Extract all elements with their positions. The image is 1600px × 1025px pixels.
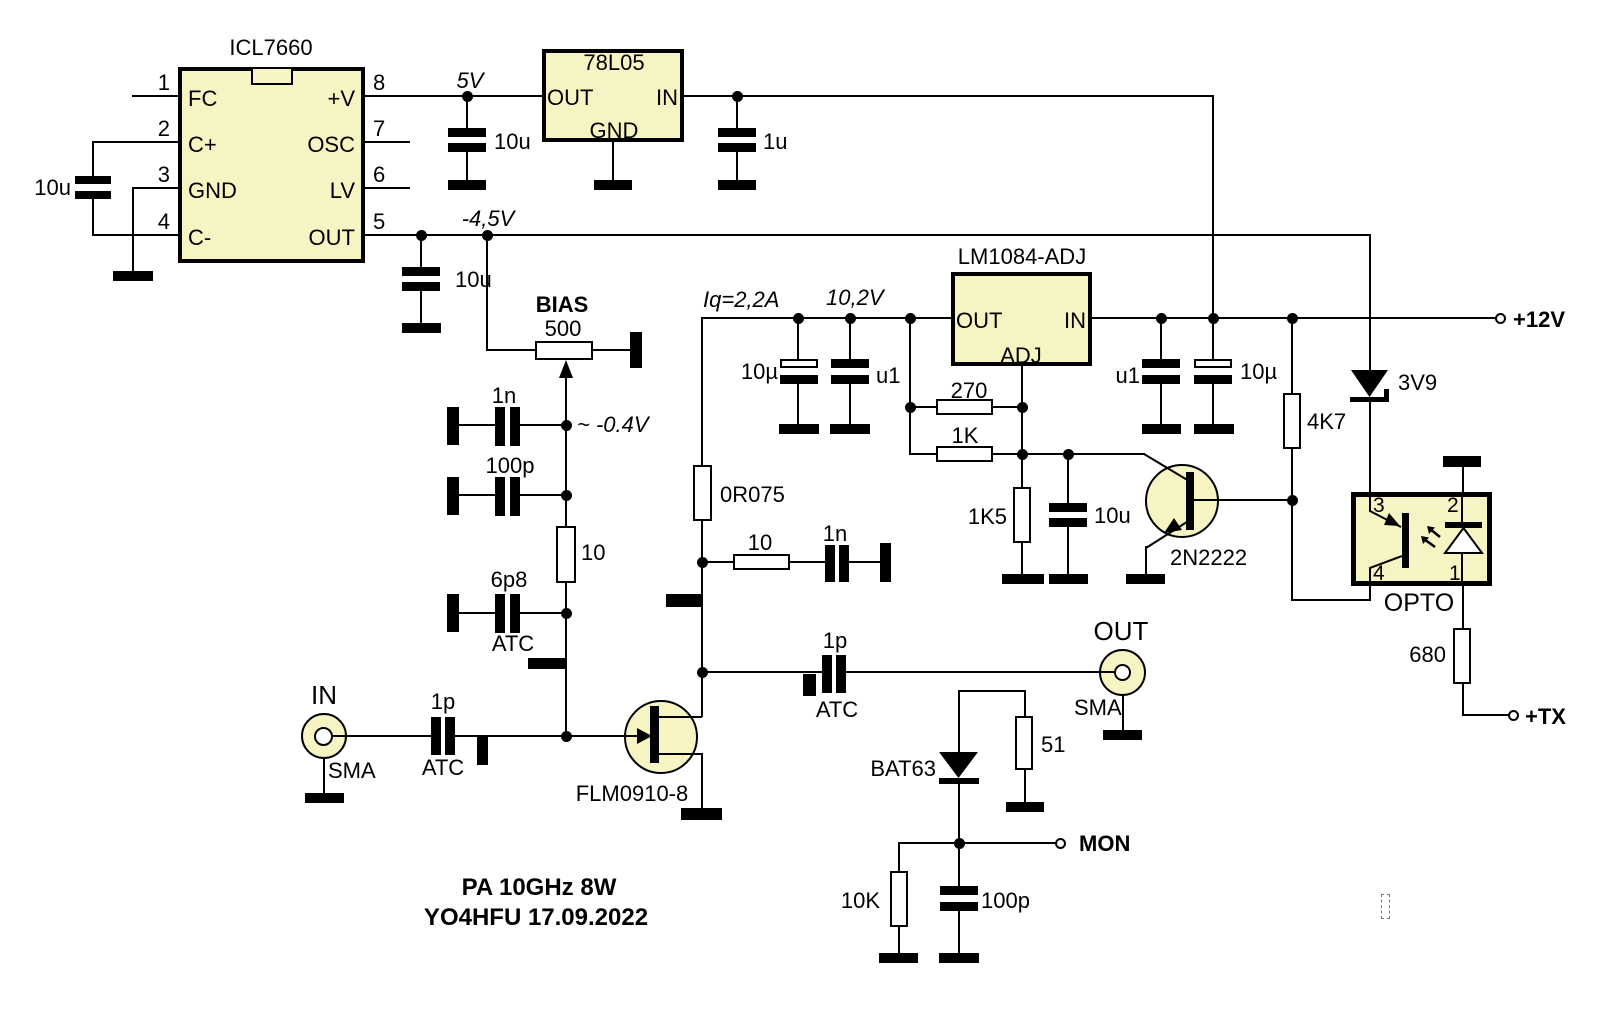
label LM1084 IN bbox=[1064, 310, 1086, 332]
terminal bar BIAS pot right bbox=[630, 332, 642, 368]
label title YO4HFU bbox=[424, 906, 648, 930]
wire 4K7 bottom to node bbox=[1291, 449, 1293, 601]
ground OPTO pin2 above bbox=[1443, 456, 1481, 467]
IC OPTO body bbox=[1351, 492, 1492, 586]
label 78L05 GND bbox=[590, 120, 639, 142]
resistor 10 horizontal body bbox=[733, 554, 790, 570]
label OPTO pin2 bbox=[1447, 495, 1459, 516]
wire 270 right bbox=[993, 406, 1022, 408]
wire 1p cap to FLM gate bbox=[455, 735, 638, 737]
wire MON horizontal bbox=[899, 842, 1055, 844]
label 1p OUT bbox=[823, 630, 847, 652]
resistor 51 body bbox=[1015, 716, 1033, 770]
wire OPTO pin1 down to 680 bbox=[1462, 586, 1464, 628]
wire 10-1n chain left bbox=[702, 561, 733, 563]
capacitor 1p IN plates bbox=[431, 717, 441, 755]
transistor 2N2222 circle bbox=[1145, 464, 1219, 538]
wire 270 left bbox=[909, 406, 936, 408]
wire 10u cap top bbox=[1067, 453, 1069, 503]
label ICL7660 bbox=[229, 37, 312, 59]
stub bar after 1p IN bbox=[477, 737, 488, 765]
IC ICL7660 notch bbox=[251, 69, 293, 85]
node -4,5V 10u bbox=[416, 230, 427, 241]
wire ICL7660 pin2 C+ bbox=[93, 141, 178, 143]
label 1p IN bbox=[431, 691, 455, 713]
label 6p8 bbox=[491, 569, 528, 591]
label BAT63 bbox=[870, 758, 936, 780]
wire u1 right cap to ground bbox=[1160, 384, 1162, 424]
label FLM0910-8 bbox=[576, 783, 689, 805]
wire OUT node down to 270/1K bbox=[909, 317, 911, 455]
label 1n bbox=[492, 385, 516, 407]
wire 1K left bbox=[909, 453, 936, 455]
resistor 270 body bbox=[936, 399, 993, 415]
wire 1n chain to end bar bbox=[849, 561, 880, 563]
label 1K bbox=[952, 425, 979, 447]
label 10u left bbox=[34, 177, 71, 199]
ground u1 left bbox=[830, 424, 870, 434]
wire C- cap vertical bbox=[92, 199, 94, 236]
wire to +TX bbox=[1462, 714, 1508, 716]
ground 10u 5V bbox=[448, 180, 486, 190]
node 5V bbox=[462, 91, 473, 102]
label OPTO bbox=[1384, 591, 1454, 616]
capacitor 1n plates bbox=[495, 407, 505, 446]
wire FLM source horizontal bbox=[659, 753, 702, 755]
wire ICL7660 pin7 OSC stub bbox=[365, 141, 410, 143]
node bias 100p bbox=[561, 490, 572, 501]
label title PA 10GHz 8W bbox=[462, 876, 617, 900]
ground FLM source bbox=[681, 808, 722, 820]
ground 2N2222 emitter bbox=[1126, 574, 1165, 584]
wire ICL7660 pin6 LV stub bbox=[365, 187, 410, 189]
wire +12V rail right segment bbox=[1092, 317, 1495, 319]
wire MON node to 100p bbox=[958, 842, 960, 886]
wire u1 left vertical bbox=[849, 317, 851, 359]
label 5V bbox=[457, 70, 484, 92]
terminal bar 6p8 left bbox=[447, 594, 459, 632]
node 4K7 bottom collector bbox=[1287, 495, 1298, 506]
wire 10u cap to ground bbox=[420, 291, 422, 323]
ground 10u bbox=[1049, 574, 1088, 584]
diode BAT63 bbox=[939, 752, 979, 784]
capacitor 100p MON plates bbox=[940, 886, 978, 895]
wire 78L05 IN to top-right corner bbox=[684, 95, 1214, 97]
label SMA IN bbox=[328, 760, 376, 782]
label FC bbox=[188, 88, 217, 110]
wire ICL7660 pin5 OUT -4,5V rail bbox=[365, 234, 1371, 236]
label MON bbox=[1079, 833, 1130, 855]
label 10µ right bbox=[1240, 361, 1277, 383]
connector IN SMA outer bbox=[301, 713, 347, 759]
label OPTO pin3 bbox=[1373, 495, 1385, 516]
ground 10u -4,5V bbox=[402, 323, 441, 333]
label 0R075 bbox=[720, 484, 785, 506]
label pin4 bbox=[158, 211, 170, 233]
wire -4,5V down to BIAS pot bbox=[486, 235, 488, 351]
node -4,5V bias bbox=[482, 230, 493, 241]
ground 1u bbox=[718, 180, 756, 190]
node 78L05 IN 1u bbox=[732, 91, 743, 102]
wire BAT63 to MON node bbox=[958, 783, 960, 843]
node u1 left bbox=[845, 313, 856, 324]
label ATC bias bbox=[492, 633, 534, 655]
node bias 6p8 bbox=[561, 608, 572, 619]
wire 10u cap to ground bbox=[1067, 527, 1069, 574]
capacitor u1 right plates bbox=[1142, 359, 1180, 368]
wire zener to OPTO pin3 bbox=[1369, 400, 1371, 492]
label 10K bbox=[841, 890, 880, 912]
capacitor 10u at -4,5V plates bbox=[402, 267, 440, 276]
wire 51 to ground bbox=[1024, 770, 1026, 802]
label pin5 bbox=[373, 211, 385, 233]
label 270 bbox=[951, 380, 988, 402]
node 1K right ADJ bbox=[1017, 449, 1028, 460]
capacitor 6p8 plates bbox=[495, 594, 505, 633]
ground u1 right bbox=[1142, 424, 1181, 434]
label +TX bbox=[1525, 706, 1566, 728]
wire 1n cap right bbox=[520, 424, 566, 426]
label LM1084 ADJ bbox=[1000, 345, 1042, 367]
node 10µ right bbox=[1208, 313, 1219, 324]
wire drain node to 1p out cap bbox=[702, 671, 822, 673]
label LM1084-ADJ bbox=[958, 246, 1086, 268]
wire 100p to ground bbox=[958, 911, 960, 953]
label pin6 bbox=[373, 164, 385, 186]
label 3V9 bbox=[1398, 372, 1437, 394]
label 1u bbox=[763, 131, 787, 153]
label pin7 bbox=[373, 118, 385, 140]
wire coupler to BAT63 bbox=[958, 690, 960, 752]
stub bar on bias line bbox=[528, 658, 566, 669]
wire 5V node to 10u cap bbox=[466, 96, 468, 128]
capacitor 10u plates bbox=[1049, 503, 1087, 512]
wire 78L05 GND down bbox=[612, 142, 614, 181]
terminal MON open circle bbox=[1055, 838, 1066, 849]
terminal bar 1n left bbox=[447, 407, 459, 445]
label 500 bbox=[545, 318, 582, 340]
ground OUT SMA bbox=[1103, 730, 1142, 740]
stub bar before 1p OUT bbox=[803, 674, 816, 696]
node 10-1n chain bbox=[697, 557, 708, 568]
wire OPTO pin4 up bbox=[1369, 586, 1371, 601]
label OSC bbox=[307, 134, 355, 156]
node bias 1n bbox=[561, 420, 572, 431]
wire coupler to 51 bbox=[1024, 690, 1026, 716]
label C+ bbox=[188, 134, 217, 156]
label u1 left bbox=[876, 365, 900, 387]
resistor 4K7 body bbox=[1283, 393, 1301, 449]
wire 10u right cap top bbox=[1212, 319, 1214, 359]
ground 10µ left bbox=[779, 424, 819, 434]
transistor FLM0910-8 circle bbox=[624, 700, 698, 774]
label ~ -0.4V bbox=[577, 414, 649, 436]
ground 78L05 bbox=[594, 180, 632, 190]
wire 0R075 bottom to drain bbox=[701, 521, 703, 717]
stub bar on drain line bbox=[666, 594, 702, 607]
wire C+ cap vertical bbox=[92, 141, 94, 177]
wire BIAS pot right bbox=[593, 349, 630, 351]
wire 1K5 bottom to ground bbox=[1021, 543, 1023, 574]
node 4K7 top bbox=[1287, 313, 1298, 324]
label OPTO pin1 bbox=[1449, 563, 1461, 584]
IC ICL7660 body bbox=[178, 67, 365, 263]
resistor 10 vertical body bbox=[556, 526, 576, 583]
wire -4,5V node to 10u cap bbox=[420, 235, 422, 267]
label 51 bbox=[1041, 734, 1065, 756]
wire 10µ left vertical bbox=[797, 317, 799, 359]
label 680 bbox=[1409, 644, 1446, 666]
wire MON to 10K bbox=[898, 842, 900, 871]
wire 2N2222 emitter tail bbox=[1145, 546, 1147, 575]
node u1 right bbox=[1156, 313, 1167, 324]
node LM1084 OUT branch bbox=[905, 313, 916, 324]
label OUT pin5 bbox=[309, 227, 355, 249]
label OPTO pin4 bbox=[1373, 563, 1385, 584]
label 10u at -4,5V bbox=[455, 269, 492, 291]
resistor 0R075 body bbox=[693, 465, 712, 521]
label 78L05 OUT bbox=[547, 87, 593, 109]
wire 6p8 cap right bbox=[520, 612, 566, 614]
wire 4K7 top bbox=[1291, 317, 1293, 393]
wire FLM drain horizontal bbox=[659, 716, 702, 718]
ground 1K5 bbox=[1002, 574, 1044, 584]
wire coupler line horizontal bbox=[958, 690, 1026, 692]
label BIAS bbox=[536, 294, 589, 316]
capacitor 1n chain plates bbox=[825, 545, 835, 582]
wire 1u cap to ground bbox=[736, 152, 738, 181]
label LM1084 OUT bbox=[956, 310, 1002, 332]
label 78L05 bbox=[583, 52, 644, 74]
label 10 vertical bbox=[581, 542, 605, 564]
wire 10-1n chain middle bbox=[790, 561, 825, 563]
wire 10K to ground bbox=[898, 927, 900, 953]
wire ICL7660 pin1 FC stub bbox=[132, 95, 178, 97]
label +V bbox=[327, 88, 355, 110]
wire to BIAS pot left bbox=[486, 349, 535, 351]
label pin1 bbox=[158, 72, 170, 94]
IC 78L05 body bbox=[542, 49, 684, 142]
diode zener 3V9 bbox=[1350, 370, 1389, 402]
IC LM1084-ADJ body bbox=[951, 272, 1092, 366]
potentiometer BIAS wiper arrow bbox=[559, 360, 573, 378]
label 10u at 5V bbox=[494, 131, 531, 153]
connector OUT SMA inner bbox=[1114, 664, 1131, 681]
resistor 680 body bbox=[1453, 628, 1471, 684]
ground IN SMA bbox=[305, 793, 344, 803]
wire 680 down bbox=[1462, 684, 1464, 716]
label 100p MON bbox=[981, 890, 1030, 912]
label SMA OUT bbox=[1074, 697, 1122, 719]
wire BIAS wiper down to gate line bbox=[565, 378, 567, 526]
wire ICL7660 pin4 C- bbox=[93, 234, 178, 236]
wire ICL7660 pin3 GND bbox=[133, 187, 178, 189]
transistor 2N2222 internals bbox=[1144, 454, 1194, 548]
wire node to OPTO pin4 horizontal bbox=[1291, 599, 1371, 601]
capacitor 10µ electrolytic left plates bbox=[780, 359, 818, 368]
resistor 1K5 body bbox=[1013, 487, 1031, 543]
label 1n chain bbox=[823, 523, 847, 545]
label 10µ left bbox=[741, 361, 778, 383]
label 100p bbox=[486, 455, 535, 477]
node 270 left bbox=[905, 402, 916, 413]
label ATC IN bbox=[422, 757, 464, 779]
label 4K7 bbox=[1307, 411, 1346, 433]
wire LM1084 ADJ down bbox=[1021, 366, 1023, 487]
label 10 horizontal bbox=[748, 532, 772, 554]
potentiometer BIAS 500 body bbox=[535, 341, 593, 360]
connector IN SMA inner bbox=[314, 727, 333, 746]
label GND bbox=[188, 180, 237, 202]
label 1K5 bbox=[968, 506, 1007, 528]
optocoupler OPTO internals bbox=[1370, 492, 1482, 586]
wire u1 right cap top bbox=[1160, 317, 1162, 359]
label u1 right bbox=[1116, 365, 1140, 387]
label 78L05 IN bbox=[656, 87, 678, 109]
capacitor u1 left plates bbox=[831, 359, 869, 368]
wire 1u cap top bbox=[736, 96, 738, 128]
wire 2N2222 collector bbox=[1193, 499, 1292, 501]
label pin2 bbox=[158, 118, 170, 140]
capacitor 100p plates bbox=[495, 477, 505, 516]
transistor FLM0910-8 internals bbox=[637, 706, 659, 763]
terminal bar 100p left bbox=[447, 477, 459, 515]
label ATC OUT bbox=[816, 699, 858, 721]
label pin8 bbox=[373, 72, 385, 94]
node gate line bbox=[561, 731, 572, 742]
capacitor 10µ right plates bbox=[1194, 359, 1232, 368]
wire 6p8 cap left bbox=[459, 612, 495, 614]
label 2N2222 bbox=[1170, 547, 1247, 569]
wire 0R075 top vertical bbox=[701, 317, 703, 465]
terminal +12V open circle bbox=[1495, 313, 1506, 324]
node 10u base bbox=[1063, 449, 1074, 460]
ground 10µ right bbox=[1194, 424, 1234, 434]
wire 1n cap left bbox=[459, 424, 495, 426]
wire 1K right to 2N2222 base bbox=[993, 453, 1145, 455]
label IN bbox=[311, 682, 337, 708]
label 10u mid bbox=[1094, 505, 1131, 527]
wire IN SMA ground bbox=[323, 759, 325, 793]
node 270 right ADJ bbox=[1017, 402, 1028, 413]
wire 100p cap left bbox=[459, 494, 495, 496]
wire pin3 GND down bbox=[132, 187, 134, 272]
dashed marker bbox=[1381, 894, 1390, 919]
label LV bbox=[330, 180, 355, 202]
capacitor 1p OUT plates bbox=[822, 655, 832, 693]
connector OUT SMA outer bbox=[1099, 649, 1146, 696]
wire 100p cap right bbox=[520, 494, 566, 496]
label 10,2V bbox=[826, 287, 884, 309]
wire corner down to +12V rail bbox=[1212, 95, 1214, 319]
label C- bbox=[188, 227, 211, 249]
wire ICL7660 pin8 +V to 78L05 OUT (5V rail) bbox=[365, 95, 542, 97]
ground 100p MON bbox=[939, 953, 979, 963]
resistor 1K body bbox=[936, 446, 993, 462]
label pin3 bbox=[158, 164, 170, 186]
label Iq=2,2A bbox=[703, 289, 779, 311]
capacitor 1u plates bbox=[718, 128, 756, 137]
wire IN SMA to 1p cap bbox=[331, 735, 431, 737]
ground pin3 ICL7660 bbox=[113, 271, 153, 281]
capacitor 10u at 5V plates bbox=[448, 128, 486, 137]
node 10µ left bbox=[793, 313, 804, 324]
wire zener top vertical bbox=[1369, 234, 1371, 370]
wire 10u right cap bottom bbox=[1212, 384, 1214, 424]
ground 51 bbox=[1006, 802, 1044, 812]
wire +12V rail left segment bbox=[702, 317, 951, 319]
wire FLM source down to ground bbox=[701, 753, 703, 808]
capacitor 10u at C+/C- plate top bbox=[75, 176, 111, 184]
wire OUT SMA ground bbox=[1122, 696, 1124, 730]
node drain out bbox=[697, 667, 708, 678]
capacitor 10u at C+/C- plate bottom bbox=[75, 191, 111, 199]
terminal +TX open circle bbox=[1508, 710, 1519, 721]
wire 10u cap to ground bbox=[466, 152, 468, 181]
label -4,5V bbox=[462, 208, 515, 230]
wire 1p out cap to OUT SMA bbox=[846, 671, 1116, 673]
wire bias line resistor10 to gate bbox=[565, 583, 567, 737]
label +12V bbox=[1513, 309, 1565, 331]
wire OPTO pin2 to ground above bbox=[1462, 466, 1464, 492]
ground 10K bbox=[879, 953, 918, 963]
terminal bar 1n chain right bbox=[880, 543, 891, 582]
label OUT SMA bbox=[1094, 618, 1149, 644]
node MON bbox=[954, 838, 965, 849]
resistor 10K body bbox=[890, 871, 908, 927]
